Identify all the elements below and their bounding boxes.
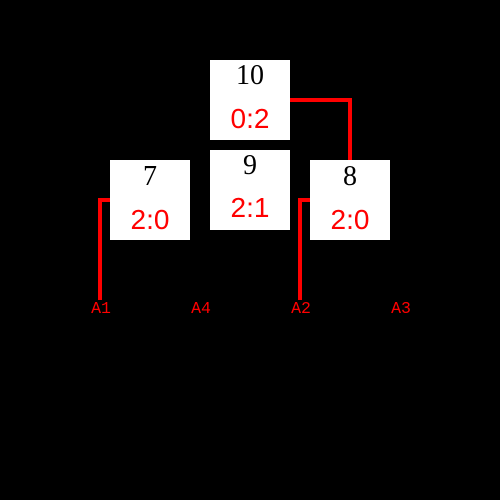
score 0:2: [210, 105, 290, 133]
label 7: [110, 163, 190, 191]
label 8: [310, 163, 390, 191]
wire A1 horizontal: [98, 198, 110, 202]
score 2:1: [210, 194, 290, 222]
label 9: [210, 152, 290, 180]
score 2:0: [310, 206, 390, 234]
match box 7: [110, 160, 190, 240]
wire A2 vertical: [298, 198, 302, 300]
label 10: [210, 62, 290, 90]
match box 9: [210, 150, 290, 230]
node A3: [381, 301, 421, 318]
wire 10-8 horizontal: [290, 98, 352, 102]
node A4: [181, 301, 221, 318]
wire 10-8 vertical: [348, 98, 352, 160]
score 2:0: [110, 206, 190, 234]
wire A2 horizontal: [298, 198, 310, 202]
match box 8: [310, 160, 390, 240]
node A1: [81, 301, 121, 318]
node A2: [281, 301, 321, 318]
match box 10: [210, 60, 290, 140]
wire A1 vertical: [98, 198, 102, 300]
